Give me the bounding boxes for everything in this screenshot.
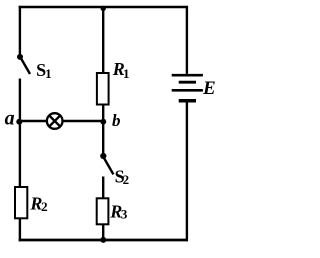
svg-text:E: E bbox=[202, 78, 216, 99]
svg-text:b: b bbox=[112, 111, 121, 130]
svg-text:a: a bbox=[5, 108, 15, 130]
